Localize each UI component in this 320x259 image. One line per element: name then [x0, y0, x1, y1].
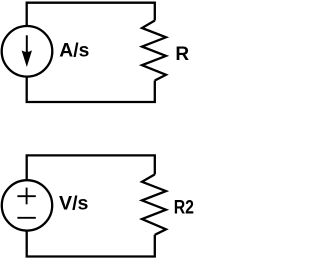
voltage source V1 circle: [2, 180, 52, 230]
current source I1 circle: [2, 26, 53, 77]
current source I1 arrow: [22, 35, 32, 67]
resistor R1 zigzag: [142, 21, 166, 81]
svg-text:V/s: V/s: [59, 194, 89, 215]
svg-text:R: R: [175, 44, 189, 65]
wire: top circuit, bottom return: [27, 76, 155, 102]
voltage source V1 plus sign: [17, 188, 35, 205]
svg-text:R2: R2: [174, 198, 194, 219]
resistor R2 zigzag: [142, 174, 166, 234]
wire: top circuit, top horizontal: [27, 3, 155, 27]
voltage source V1 minus sign: [17, 217, 35, 219]
svg-text:A/s: A/s: [59, 41, 89, 62]
wire: bottom circuit, bottom return: [27, 230, 155, 256]
wire: bottom circuit, top horizontal: [27, 155, 155, 180]
